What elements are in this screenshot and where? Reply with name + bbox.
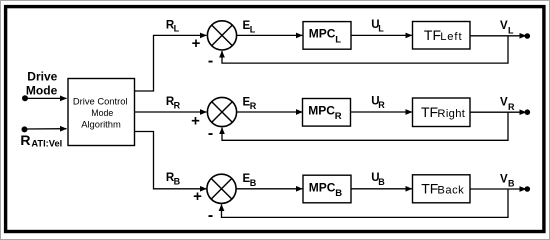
wire: U1 to summing junction S2 (RR reference): [135, 111, 207, 113]
svg-text:R: R: [20, 132, 30, 148]
svg-text:B: B: [335, 188, 342, 199]
svg-text:L: L: [335, 34, 341, 45]
svg-text:MPC: MPC: [308, 103, 335, 117]
wire: feedback loop row R: [222, 112, 508, 140]
svg-text:L: L: [508, 25, 514, 35]
svg-text:B: B: [378, 177, 385, 187]
svg-text:L: L: [174, 24, 180, 34]
svg-text:+: +: [191, 112, 200, 129]
svg-text:Back: Back: [437, 185, 464, 197]
wire: feedback loop row L: [222, 36, 508, 63]
node: VL output terminal: [525, 33, 531, 39]
wire: S2 to MPC R: [236, 111, 302, 113]
svg-text:V: V: [500, 20, 508, 32]
wire: feedback loop row B: [222, 189, 509, 217]
wire: S3 to MPC B: [236, 188, 303, 190]
block: TF Right: [413, 98, 471, 127]
svg-text:Drive: Drive: [27, 70, 57, 84]
svg-text:B: B: [508, 179, 515, 189]
summing junction S2: [207, 97, 236, 126]
svg-text:V: V: [500, 173, 508, 185]
svg-text:-: -: [208, 207, 213, 224]
svg-text:Mode: Mode: [26, 84, 58, 98]
wire: TF Back to output node VB: [470, 188, 526, 190]
svg-text:Algorithm: Algorithm: [81, 118, 121, 129]
svg-text:TF: TF: [421, 181, 438, 197]
wire: TF Right to output node VR: [470, 111, 526, 113]
wire: MPC B to TF Back: [351, 188, 412, 190]
svg-text:R: R: [378, 100, 385, 110]
svg-text:-: -: [208, 52, 213, 69]
svg-text:R: R: [335, 111, 342, 122]
block: TF Left: [413, 22, 471, 50]
block: MPC B: [303, 175, 351, 203]
wire: RATI:Vel input to U1: [25, 128, 67, 130]
wire: U1 to summing junction S3 (RB reference): [135, 132, 207, 189]
wire: TF Left to output node VL: [470, 35, 526, 37]
svg-text:TF: TF: [424, 27, 441, 43]
summing junction S1: [207, 21, 236, 50]
block: MPC L: [303, 22, 351, 50]
svg-text:R: R: [250, 101, 257, 111]
block U1: Drive Control Mode Algorithm: [68, 79, 135, 146]
svg-text:-: -: [208, 125, 213, 142]
svg-text:Left: Left: [440, 31, 462, 43]
svg-text:+: +: [193, 188, 202, 205]
wire: MPC L to TF Left: [351, 34, 412, 36]
svg-text:Mode: Mode: [91, 108, 113, 118]
block: TF Back: [413, 175, 471, 203]
svg-text:TF: TF: [421, 104, 438, 120]
svg-text:L: L: [250, 24, 256, 34]
wire: U1 to summing junction S1 (RL reference): [135, 35, 207, 91]
svg-text:+: +: [192, 35, 201, 52]
node: VB output terminal: [525, 186, 531, 192]
svg-text:V: V: [500, 97, 508, 109]
block: MPC R: [303, 99, 351, 127]
svg-text:B: B: [174, 177, 181, 187]
node: Drive Mode input terminal: [22, 95, 28, 101]
wire: S1 to MPC L: [236, 34, 302, 36]
svg-text:MPC: MPC: [309, 180, 336, 194]
svg-text:L: L: [378, 24, 384, 34]
svg-text:Right: Right: [437, 108, 465, 120]
svg-text:B: B: [250, 178, 257, 188]
svg-text:ATI:Vel: ATI:Vel: [31, 138, 62, 148]
wire: Drive Mode input to U1: [25, 97, 67, 99]
svg-text:MPC: MPC: [309, 27, 336, 41]
svg-text:Drive Control: Drive Control: [73, 96, 128, 107]
svg-text:R: R: [174, 100, 181, 110]
svg-text:R: R: [508, 102, 515, 112]
summing junction S3: [207, 174, 236, 203]
node: VR output terminal: [525, 109, 531, 115]
wire: MPC R to TF Right: [351, 111, 412, 113]
node: RATI:Vel input terminal: [22, 126, 28, 132]
